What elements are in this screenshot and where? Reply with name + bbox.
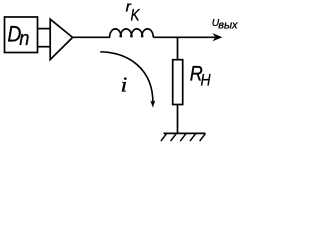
detector block Dn [5, 17, 38, 53]
svg-text:H: H [201, 71, 212, 90]
wire resistor to ground [177, 105, 179, 134]
output arrowhead Uvyx [213, 33, 223, 41]
resistor RH [173, 60, 183, 105]
inductor rK [110, 29, 122, 37]
node junction wire down [177, 37, 179, 60]
wire box to amplifier (bottom) [38, 46, 51, 48]
svg-text:n: n [19, 27, 29, 50]
arrowhead of current arc [150, 100, 155, 107]
ground [164, 132, 206, 134]
wire inductor to output arrow [153, 36, 215, 38]
op-amp (amplifier triangle) [50, 19, 72, 59]
svg-text:i: i [121, 73, 128, 97]
svg-text:вых: вых [218, 19, 238, 31]
wire box to amplifier (top) [38, 28, 51, 30]
current arc i [100, 52, 153, 103]
wire apex to inductor [73, 36, 110, 38]
svg-text:K: K [131, 6, 141, 25]
